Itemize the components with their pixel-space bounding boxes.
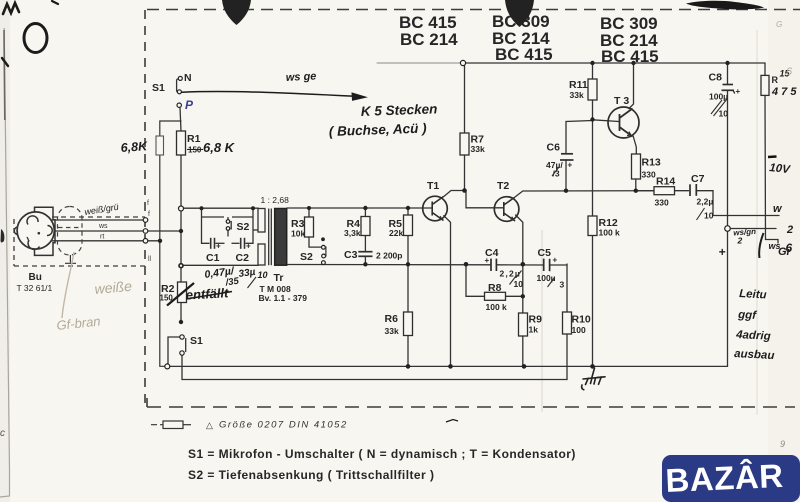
svg-text:R1: R1 (187, 133, 201, 145)
svg-text:C6: C6 (547, 142, 561, 154)
svg-text:10: 10 (704, 211, 714, 221)
svg-text:10: 10 (514, 279, 524, 289)
svg-text:+: + (568, 161, 573, 170)
svg-text:10: 10 (258, 270, 268, 280)
svg-text:2: 2 (786, 224, 793, 236)
svg-text:ausbau: ausbau (734, 348, 775, 362)
svg-text:N: N (184, 72, 192, 84)
svg-text:S2 = Tiefenabsenkung ( Trittsc: S2 = Tiefenabsenkung ( Trittschallfilter… (188, 468, 434, 482)
svg-text:330: 330 (642, 170, 656, 180)
svg-text:C5: C5 (538, 247, 552, 259)
svg-text:R14: R14 (656, 176, 675, 188)
svg-text:S1: S1 (190, 335, 203, 347)
svg-text:BAZÂR: BAZÂR (665, 457, 784, 499)
svg-text:3: 3 (560, 280, 565, 290)
svg-text:entfällt: entfällt (185, 285, 229, 302)
svg-text:33k: 33k (570, 90, 584, 100)
svg-text:R: R (772, 75, 779, 85)
svg-text:+: + (553, 256, 558, 265)
svg-text:1 : 2,68: 1 : 2,68 (261, 195, 290, 205)
svg-text:2,2µ: 2,2µ (500, 269, 522, 279)
svg-text:G: G (776, 20, 782, 29)
svg-text:T 3: T 3 (614, 95, 629, 107)
svg-text:P: P (185, 98, 194, 112)
svg-text:6,8 K: 6,8 K (203, 140, 236, 155)
svg-text:S1 = Mikrofon - Umschalter ( N: S1 = Mikrofon - Umschalter ( N = dynamis… (188, 447, 576, 461)
svg-text:C7: C7 (691, 173, 705, 185)
svg-text:4adrig: 4adrig (735, 329, 771, 343)
svg-text:+: + (216, 242, 221, 251)
svg-text:C2: C2 (236, 252, 250, 264)
svg-text:T1: T1 (427, 180, 439, 192)
svg-text:+: + (485, 256, 490, 265)
svg-text:C1: C1 (206, 252, 220, 264)
svg-text:weiße: weiße (94, 278, 133, 297)
svg-text:Tr: Tr (274, 272, 284, 284)
svg-text:+: + (719, 245, 726, 259)
svg-text:1k: 1k (529, 325, 539, 335)
svg-text:33k: 33k (385, 326, 399, 336)
svg-text:ws: ws (98, 223, 108, 230)
svg-text:R6: R6 (385, 313, 399, 325)
svg-text:ws ge: ws ge (286, 70, 317, 84)
svg-text:R10: R10 (572, 314, 591, 326)
svg-text:/35: /35 (224, 276, 240, 289)
svg-text:Größe 0207 DIN 41052: Größe 0207 DIN 41052 (219, 420, 348, 431)
svg-text:100 k: 100 k (599, 228, 621, 238)
svg-text:+: + (246, 242, 251, 251)
svg-text:C3: C3 (344, 249, 358, 261)
svg-text:△: △ (206, 420, 213, 430)
svg-text:BC 415: BC 415 (495, 45, 553, 64)
svg-text:BC 415: BC 415 (601, 47, 659, 66)
svg-text:ggf: ggf (737, 309, 758, 322)
svg-text:100: 100 (572, 325, 586, 335)
svg-text:f: f (148, 211, 150, 218)
svg-text:10k: 10k (291, 229, 305, 239)
svg-text:100 k: 100 k (486, 302, 508, 312)
svg-text:33k: 33k (471, 144, 485, 154)
svg-text:Bu: Bu (29, 272, 42, 283)
svg-text:2: 2 (737, 236, 743, 246)
svg-text:330: 330 (655, 198, 669, 208)
svg-text:Bv. 1.1 - 379: Bv. 1.1 - 379 (259, 293, 308, 303)
svg-text:Leitu: Leitu (739, 288, 767, 301)
svg-text:ll: ll (148, 256, 152, 263)
svg-text:C8: C8 (709, 72, 723, 84)
svg-text:K 5 Stecken: K 5 Stecken (361, 101, 438, 119)
svg-text:+: + (736, 87, 741, 96)
svg-text:10: 10 (719, 109, 729, 119)
svg-text:2 200p: 2 200p (376, 251, 402, 261)
svg-text:f: f (147, 200, 149, 207)
svg-text:2,2µ: 2,2µ (697, 197, 714, 207)
svg-text:22k: 22k (389, 228, 403, 238)
svg-text:9: 9 (780, 439, 785, 449)
svg-text:6: 6 (786, 66, 793, 78)
svg-text:R13: R13 (642, 157, 661, 169)
svg-text:w: w (773, 203, 783, 215)
svg-text:3,3k: 3,3k (344, 228, 361, 238)
svg-text:T2: T2 (497, 180, 509, 192)
svg-text:S2: S2 (300, 251, 313, 263)
svg-text:rt: rt (100, 234, 104, 241)
svg-text:100µ: 100µ (537, 273, 556, 283)
svg-text:S1: S1 (152, 82, 165, 94)
svg-text:10V: 10V (769, 162, 792, 176)
svg-text:BC 214: BC 214 (400, 30, 458, 49)
svg-text:R8: R8 (488, 282, 502, 294)
svg-text:4 7 5: 4 7 5 (771, 86, 797, 98)
svg-text:6: 6 (786, 241, 793, 255)
svg-text:6,8K: 6,8K (120, 139, 148, 155)
svg-text:c: c (0, 428, 5, 439)
svg-text:S2: S2 (237, 221, 250, 233)
svg-text:100µ: 100µ (709, 92, 728, 102)
svg-text:T 32 61/1: T 32 61/1 (17, 283, 53, 293)
